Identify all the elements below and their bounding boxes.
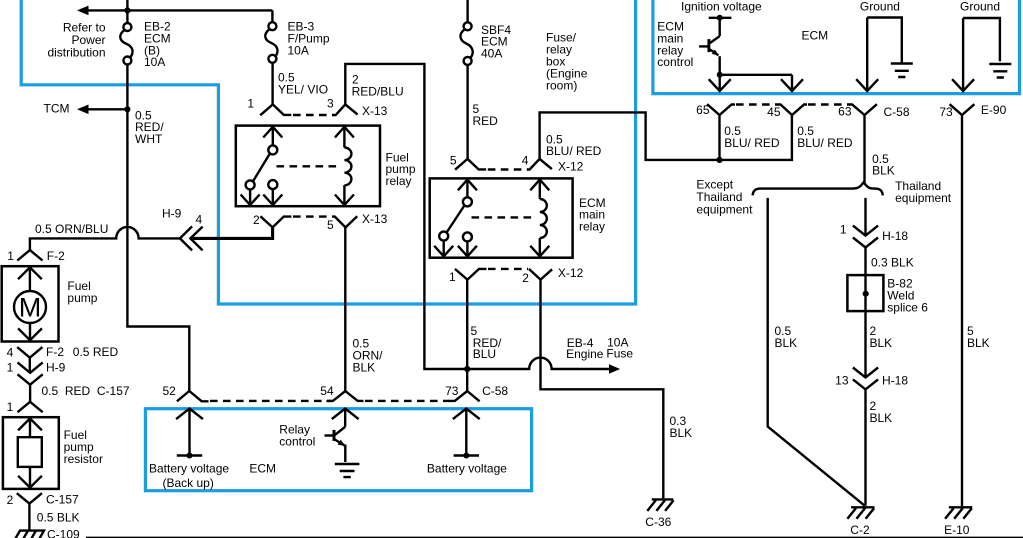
svg-text:X-12: X-12 — [558, 160, 584, 174]
wire 5 BLK from E-90 pin 73 to ground E-10 — [961, 115, 963, 506]
ECM output arrow to pin 45 (down) — [781, 75, 803, 91]
relay coil bottom arrow (down) — [335, 186, 354, 205]
svg-text:F-2: F-2 — [46, 345, 64, 359]
svg-text:1: 1 — [7, 249, 14, 263]
svg-text:H-18: H-18 — [882, 374, 908, 388]
wire 0.5 BLK except-Thailand branch — [768, 198, 865, 506]
svg-text:X-13: X-13 — [362, 104, 388, 118]
wire 0.3 BLK to weld splice — [864, 248, 866, 378]
svg-text:0.5 RED: 0.5 RED — [73, 345, 119, 359]
svg-text:1: 1 — [7, 361, 14, 375]
svg-text:C-157: C-157 — [46, 492, 79, 506]
svg-text:distribution: distribution — [47, 45, 105, 59]
junction dot — [463, 453, 469, 459]
svg-text:X-13: X-13 — [362, 212, 388, 226]
svg-text:control: control — [279, 435, 315, 449]
wire Thailand branch upper — [864, 198, 866, 236]
ground C-36 — [647, 499, 673, 511]
ECM output arrow to pin 63 (down) — [856, 18, 878, 92]
connector C-157 pin 1 — [18, 402, 43, 412]
svg-text:1: 1 — [840, 223, 847, 237]
svg-text:RED/BLU: RED/BLU — [352, 84, 404, 98]
svg-text:relay: relay — [386, 174, 412, 188]
svg-text:3: 3 — [327, 97, 334, 111]
svg-text:C-58: C-58 — [482, 384, 508, 398]
fuse EB-2 — [120, 23, 132, 65]
earth ground — [989, 64, 1011, 78]
relay switch contact right — [268, 180, 277, 189]
ECM pin 73 arrow (battery voltage) — [453, 409, 480, 456]
relay coil — [540, 197, 547, 239]
fuse SBF4 — [460, 22, 472, 65]
wire to earth ground — [344, 445, 346, 462]
svg-text:(Back up): (Back up) — [163, 476, 214, 490]
svg-text:5: 5 — [450, 153, 457, 167]
svg-text:Ignition voltage: Ignition voltage — [681, 0, 762, 13]
relay contact right lead arrow (down) — [458, 241, 477, 256]
svg-text:C-58: C-58 — [884, 105, 910, 119]
connector C-58 pin 65 — [707, 104, 735, 115]
bottom border line — [86, 537, 1023, 538]
junction TCM branch — [124, 106, 130, 112]
wire 5 RED/BLU from X-12 pin 1 down to C-58 pin 73 — [466, 280, 468, 391]
connector X-13 pin 5 — [332, 216, 357, 227]
connector C-58 pin 52 — [177, 391, 209, 401]
svg-text:C-109: C-109 — [47, 528, 80, 538]
ECM output arrow to pin 65 (down) — [709, 75, 731, 91]
svg-text:4: 4 — [7, 346, 14, 360]
svg-text:H-18: H-18 — [882, 229, 908, 243]
svg-text:room): room) — [546, 79, 577, 93]
svg-text:C-36: C-36 — [645, 515, 671, 529]
resistor element — [18, 437, 42, 467]
connector X-12 dashed line (bottom) — [488, 268, 528, 270]
transistor U ECM main relay control — [699, 18, 720, 75]
svg-text:73: 73 — [939, 105, 953, 119]
relay switch blade — [253, 154, 270, 182]
wire 0.5 ORN/BLK from X-13 pin 5 to C-58 pin 54 — [344, 227, 346, 391]
svg-text:BLU/ RED: BLU/ RED — [546, 144, 602, 158]
wire pin 65 stem — [718, 115, 720, 160]
svg-text:2: 2 — [522, 271, 529, 285]
svg-text:ECM: ECM — [249, 462, 276, 476]
wire 0.5 YEL/VIO from EB-3 to X-13 pin 1 — [271, 63, 273, 105]
svg-text:Battery voltage: Battery voltage — [149, 462, 229, 476]
svg-text:C-2: C-2 — [850, 523, 870, 537]
svg-text:E-90: E-90 — [981, 103, 1007, 117]
connector C-58 dashed line 54-73 — [365, 400, 449, 402]
wire ground 73 — [963, 18, 1000, 61]
relay coil — [344, 146, 351, 187]
svg-text:BLU/ RED: BLU/ RED — [724, 136, 780, 150]
svg-text:1: 1 — [7, 400, 14, 414]
ECM pin 54 arrow (relay control) — [332, 409, 359, 427]
relay switch common arrow (up) — [458, 180, 477, 198]
ECM pin 52 arrow (battery voltage back up) — [176, 409, 203, 456]
svg-text:WHT: WHT — [135, 132, 163, 146]
svg-text:Fuse: Fuse — [606, 347, 633, 361]
relay switch contact left — [246, 180, 255, 189]
arrow to TCM — [77, 105, 89, 115]
svg-text:relay: relay — [579, 219, 605, 233]
svg-text:45: 45 — [767, 105, 781, 119]
ECM output arrow to pin 73 (down) — [952, 18, 974, 91]
svg-text:1: 1 — [247, 97, 254, 111]
svg-text:H-9: H-9 — [162, 207, 182, 221]
wire: EB-2 feed from bus — [126, 0, 128, 23]
svg-text:splice 6: splice 6 — [887, 301, 928, 315]
svg-text:Battery voltage: Battery voltage — [427, 462, 507, 476]
svg-text:YEL/ VIO: YEL/ VIO — [278, 83, 328, 97]
connector C-58 dashed line 52-54 — [210, 400, 332, 402]
connector X-12 pin 1 — [455, 269, 487, 280]
svg-text:Engine: Engine — [566, 347, 604, 361]
svg-text:equipment: equipment — [696, 202, 753, 216]
svg-text:73: 73 — [445, 384, 459, 398]
wire 2 BLK to ground C-2 — [864, 389, 866, 505]
svg-text:0.5 RED C-157: 0.5 RED C-157 — [42, 384, 130, 398]
wire 2 RED/BLU from X-13 pin 3 over to junction — [345, 64, 467, 369]
connector X-12 pin 4 — [527, 159, 552, 170]
svg-text:4: 4 — [522, 153, 529, 167]
connector C-58 pin 54 — [327, 391, 364, 401]
connector H-9 (chevrons pointing left) — [180, 226, 203, 250]
earth ground — [891, 64, 913, 78]
weld splice dot — [863, 291, 869, 297]
svg-text:X-12: X-12 — [558, 266, 584, 280]
relay switch contact right — [463, 232, 472, 241]
connector F-2 pin 4 — [17, 347, 42, 373]
ground E-10 — [945, 507, 972, 519]
connector X-12 pin 2 — [529, 269, 552, 280]
svg-text:BLK: BLK — [670, 426, 693, 440]
svg-text:54: 54 — [320, 384, 334, 398]
connector E-90 pin 73 — [950, 104, 975, 115]
svg-text:ECM: ECM — [802, 29, 829, 43]
battery voltage T-bar — [454, 454, 479, 456]
connector X-13 pin 2 — [260, 216, 291, 227]
relay switch pivot contact — [463, 197, 472, 206]
arrow to power distribution — [77, 6, 89, 16]
earth ground — [335, 464, 360, 477]
resistor bottom arrow (down) — [18, 467, 42, 488]
junction with EB-4 branch — [464, 366, 470, 372]
wire 5 RED from SBF4 to X-12 pin 5 — [466, 65, 468, 159]
svg-text:BLU/ RED: BLU/ RED — [797, 136, 853, 150]
connector X-13 dashed line (top) — [293, 114, 334, 116]
svg-text:0.5 ORN/BLU: 0.5 ORN/BLU — [35, 222, 108, 236]
wire: top power bus — [87, 9, 272, 11]
wire: EB-3 feed from bus — [271, 10, 273, 22]
fuel pump resistor box — [3, 417, 59, 489]
svg-text:40A: 40A — [481, 46, 502, 60]
svg-text:RED: RED — [473, 114, 499, 128]
wire ground 63 — [867, 18, 902, 63]
connector F-2 pin 1 — [17, 250, 42, 260]
junction dot — [717, 15, 723, 21]
wire: SBF4 feed — [466, 0, 468, 23]
wire EB-4 branch with hop — [467, 358, 610, 369]
svg-text:2: 2 — [7, 493, 14, 507]
connector C-58 pin 63 — [850, 104, 877, 115]
svg-text:2: 2 — [253, 213, 260, 227]
transistor Q relay control — [325, 427, 346, 446]
connector C-157 pin 2 — [17, 493, 42, 529]
resistor top arrow (up) — [18, 419, 42, 438]
svg-text:13: 13 — [835, 374, 849, 388]
wire 0.5 RED to C-157 — [29, 385, 31, 402]
connector H-18 pin 13 (double chevron down) — [853, 368, 878, 390]
relay switch common arrow (up) — [263, 127, 282, 146]
pump top arrow (up) — [18, 267, 42, 291]
svg-text:65: 65 — [696, 103, 710, 117]
blue highlight box ECM (bottom) — [145, 409, 531, 491]
connector C-109 symbol — [14, 531, 44, 538]
wire TCM branch — [87, 108, 127, 110]
svg-text:E-10: E-10 — [944, 523, 970, 537]
junction at bus / EB-2 — [124, 7, 130, 13]
wire 0.3 BLK from X-12 pin 2 to ground C-36 — [541, 280, 664, 499]
svg-text:equipment: equipment — [895, 191, 952, 205]
svg-text:BLK: BLK — [870, 411, 893, 425]
connector C-58 pin 73 — [448, 391, 479, 401]
connector C-58 pin 45 — [778, 104, 808, 115]
svg-text:resistor: resistor — [64, 452, 103, 466]
svg-text:F-2: F-2 — [47, 249, 65, 263]
connector H-9 (double chevron down) — [18, 362, 43, 384]
wire ignition voltage feed — [709, 17, 732, 19]
relay coil top arrow (up) — [530, 180, 549, 198]
svg-text:5: 5 — [327, 218, 334, 232]
relay contact left lead arrow (down) — [434, 241, 453, 257]
svg-text:pump: pump — [67, 291, 97, 305]
junction dot — [717, 72, 723, 78]
pump bottom arrow (down) — [18, 323, 42, 340]
wire 0.5 BLU/RED from X-12 pin 4 over to pins 65/45 — [540, 112, 792, 159]
svg-text:Ground: Ground — [860, 0, 900, 13]
relay coil bottom arrow (down) — [530, 240, 549, 257]
connector X-13 pin 3 — [333, 104, 358, 115]
svg-text:BLK: BLK — [775, 336, 798, 350]
blue highlight box ECM (top right) — [653, 0, 1020, 94]
svg-text:52: 52 — [163, 384, 177, 398]
svg-text:M: M — [19, 293, 42, 323]
battery voltage T-bar — [177, 454, 202, 456]
arrow to EB-4 fuse — [609, 364, 620, 373]
relay switch pivot contact — [268, 145, 277, 154]
connector H-18 (double chevron down) — [853, 226, 878, 248]
ECM main relay box — [430, 178, 573, 257]
svg-text:10A: 10A — [144, 55, 165, 69]
relay mechanical link (dashed) — [472, 216, 537, 218]
connector X-13 pin 1 — [260, 104, 291, 115]
weld splice B-82 box — [847, 275, 883, 311]
fuse EB-3 — [265, 22, 277, 63]
svg-text:BLK: BLK — [870, 336, 893, 350]
svg-text:1: 1 — [449, 270, 456, 284]
wire to pins 65/45 — [720, 74, 792, 76]
svg-text:4: 4 — [196, 212, 203, 226]
pump motor circle — [14, 291, 46, 323]
svg-text:H-9: H-9 — [46, 361, 66, 375]
svg-text:0.5 BLK: 0.5 BLK — [37, 511, 80, 525]
blue highlight polyline (power distribution region) — [21, 0, 635, 304]
svg-text:63: 63 — [838, 104, 852, 118]
ground C-2 — [847, 507, 874, 519]
relay contact left lead arrow (down) — [241, 189, 260, 205]
svg-text:Ground: Ground — [960, 0, 1000, 13]
connector X-12 dashed line (top) — [488, 168, 528, 170]
junction dot — [187, 453, 193, 459]
fuel pump relay box — [236, 126, 380, 207]
svg-text:TCM: TCM — [44, 101, 70, 115]
wire 0.5 ORN/BLU left section with hop over RED/WHT wire — [30, 227, 180, 250]
relay mechanical link (dashed) — [277, 165, 341, 167]
wire from X-13 pin 2 to H-9 (thick) — [190, 227, 272, 238]
connector X-13 dashed line (bottom) — [293, 215, 331, 217]
connector X-12 pin 5 — [455, 159, 486, 170]
relay switch contact left — [439, 232, 448, 241]
fuel pump box — [2, 266, 59, 341]
svg-text:BLU: BLU — [473, 347, 496, 361]
junction dot — [716, 157, 722, 163]
svg-text:BLK: BLK — [872, 164, 895, 178]
relay switch blade — [447, 205, 465, 232]
svg-text:BLK: BLK — [353, 361, 376, 375]
wire 0.5 RED/WHT down from EB-2 to ECM pin 52 — [127, 65, 189, 392]
svg-text:BLK: BLK — [967, 336, 990, 350]
relay contact right lead arrow (down) — [263, 189, 282, 205]
svg-text:0.3 BLK: 0.3 BLK — [871, 255, 914, 269]
svg-text:10A: 10A — [288, 43, 309, 57]
wire 0.5 BLK from pin 63 — [863, 115, 865, 183]
brace (Thailand split) — [753, 182, 883, 195]
connector C-58 dashed line 65-45 — [736, 103, 778, 105]
svg-text:control: control — [657, 55, 693, 69]
relay coil top arrow (up) — [335, 127, 354, 146]
connector C-58 dashed line 45-63 — [808, 103, 850, 105]
